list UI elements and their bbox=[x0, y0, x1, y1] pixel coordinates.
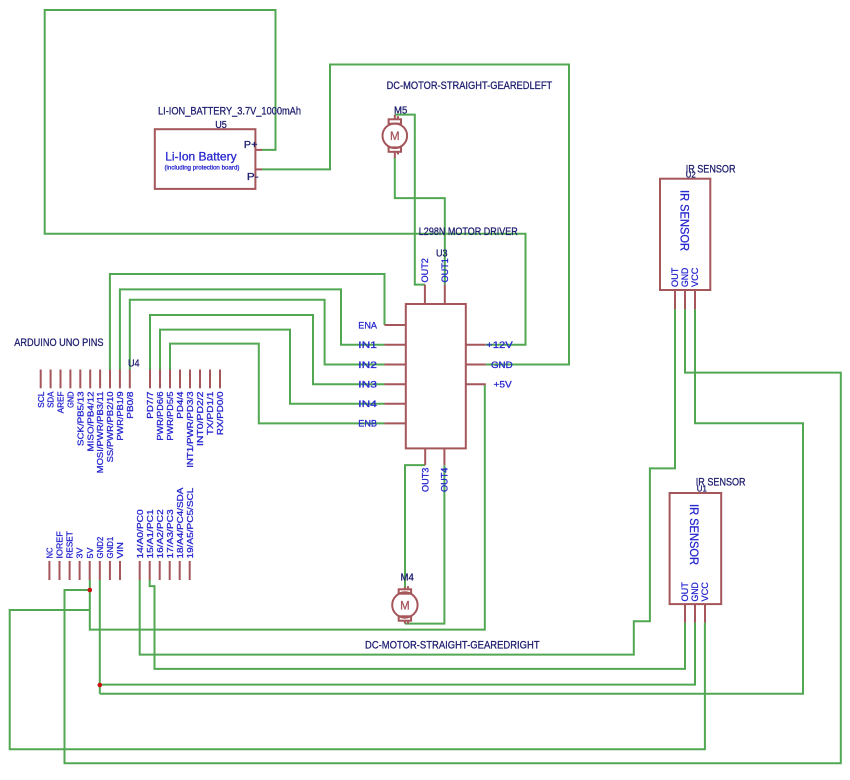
svg-text:RX/PD0/0: RX/PD0/0 bbox=[216, 391, 225, 435]
svg-text:MISO/PB4/12: MISO/PB4/12 bbox=[86, 391, 95, 452]
svg-text:IN1: IN1 bbox=[358, 340, 377, 351]
svg-text:RESET: RESET bbox=[66, 531, 75, 558]
svg-text:DC-MOTOR-STRAIGHT-GEAREDLEFT: DC-MOTOR-STRAIGHT-GEAREDLEFT bbox=[387, 80, 553, 92]
svg-text:INT0/PD2/2: INT0/PD2/2 bbox=[196, 391, 205, 446]
svg-text:SS/PWR/PB2/10: SS/PWR/PB2/10 bbox=[106, 391, 115, 462]
svg-text:5V: 5V bbox=[86, 547, 95, 558]
svg-text:PWR/PD6/6: PWR/PD6/6 bbox=[156, 391, 165, 441]
svg-text:U2: U2 bbox=[686, 171, 697, 180]
svg-text:18/A4/PC4/SDA: 18/A4/PC4/SDA bbox=[176, 487, 185, 559]
svg-text:AREF: AREF bbox=[57, 392, 66, 414]
svg-text:SDA: SDA bbox=[47, 391, 56, 408]
svg-text:U4: U4 bbox=[128, 359, 140, 370]
svg-text:(including protection board): (including protection board) bbox=[165, 164, 240, 171]
svg-text:ENB: ENB bbox=[358, 419, 377, 430]
svg-text:SCL: SCL bbox=[37, 391, 46, 408]
svg-text:U5: U5 bbox=[215, 120, 227, 131]
svg-text:PWR/PB1/9: PWR/PB1/9 bbox=[116, 391, 125, 441]
svg-text:15/A1/PC1: 15/A1/PC1 bbox=[146, 509, 155, 559]
svg-text:OUT1: OUT1 bbox=[439, 258, 450, 282]
svg-text:OUT4: OUT4 bbox=[439, 468, 450, 492]
svg-text:OUT3: OUT3 bbox=[419, 468, 430, 492]
svg-text:U1: U1 bbox=[697, 484, 708, 493]
svg-text:LI-ION_BATTERY_3.7V_1000mAh: LI-ION_BATTERY_3.7V_1000mAh bbox=[158, 105, 301, 117]
svg-text:+5V: +5V bbox=[494, 380, 513, 391]
svg-text:14/A0/PC0: 14/A0/PC0 bbox=[136, 509, 145, 559]
svg-text:DC-MOTOR-STRAIGHT-GEAREDRIGHT: DC-MOTOR-STRAIGHT-GEAREDRIGHT bbox=[365, 640, 540, 652]
svg-text:IR SENSOR: IR SENSOR bbox=[687, 504, 699, 565]
svg-text:NC: NC bbox=[46, 548, 55, 559]
svg-text:PWR/PD5/5: PWR/PD5/5 bbox=[166, 391, 175, 441]
svg-text:3V: 3V bbox=[76, 547, 85, 558]
svg-text:IR SENSOR: IR SENSOR bbox=[677, 190, 689, 251]
svg-text:VIN: VIN bbox=[116, 542, 125, 558]
svg-text:TX/PD1/1: TX/PD1/1 bbox=[206, 391, 215, 435]
svg-text:IOREF: IOREF bbox=[56, 531, 65, 558]
svg-text:19/A5/PC5/SCL: 19/A5/PC5/SCL bbox=[186, 487, 195, 558]
svg-text:GND: GND bbox=[491, 360, 513, 371]
svg-text:P-: P- bbox=[247, 172, 259, 183]
svg-text:SCK/PB5/13: SCK/PB5/13 bbox=[76, 391, 85, 446]
svg-text:GND: GND bbox=[67, 391, 76, 407]
svg-text:VCC: VCC bbox=[689, 267, 700, 287]
svg-text:16/A2/PC2: 16/A2/PC2 bbox=[156, 509, 165, 559]
svg-text:M4: M4 bbox=[401, 573, 415, 584]
svg-text:VCC: VCC bbox=[699, 582, 710, 602]
svg-text:+12V: +12V bbox=[486, 340, 513, 351]
svg-text:M: M bbox=[390, 131, 400, 143]
svg-text:U3: U3 bbox=[436, 249, 448, 260]
svg-text:17/A3/PC3: 17/A3/PC3 bbox=[166, 509, 175, 559]
svg-text:M: M bbox=[400, 600, 410, 612]
svg-text:GND2: GND2 bbox=[96, 536, 105, 558]
svg-text:ENA: ENA bbox=[358, 320, 377, 331]
svg-text:INT1/PWR/PD3/3: INT1/PWR/PD3/3 bbox=[186, 391, 195, 468]
svg-text:IN4: IN4 bbox=[358, 399, 378, 410]
svg-text:Li-Ion Battery: Li-Ion Battery bbox=[165, 150, 236, 164]
svg-text:P+: P+ bbox=[244, 140, 258, 151]
svg-text:GND1: GND1 bbox=[106, 536, 115, 558]
svg-text:PD7/7: PD7/7 bbox=[146, 391, 155, 419]
svg-text:M5: M5 bbox=[394, 105, 408, 116]
svg-text:OUT2: OUT2 bbox=[419, 258, 430, 282]
svg-text:IN2: IN2 bbox=[358, 360, 377, 371]
svg-text:L298N MOTOR DRIVER: L298N MOTOR DRIVER bbox=[419, 226, 518, 238]
svg-text:IN3: IN3 bbox=[358, 380, 377, 391]
svg-text:MOSI/PWR/PB3/11: MOSI/PWR/PB3/11 bbox=[96, 391, 105, 473]
svg-text:PD4/4: PD4/4 bbox=[176, 391, 185, 419]
svg-text:ARDUINO UNO PINS: ARDUINO UNO PINS bbox=[14, 337, 104, 349]
svg-text:PB0/8: PB0/8 bbox=[126, 391, 135, 419]
